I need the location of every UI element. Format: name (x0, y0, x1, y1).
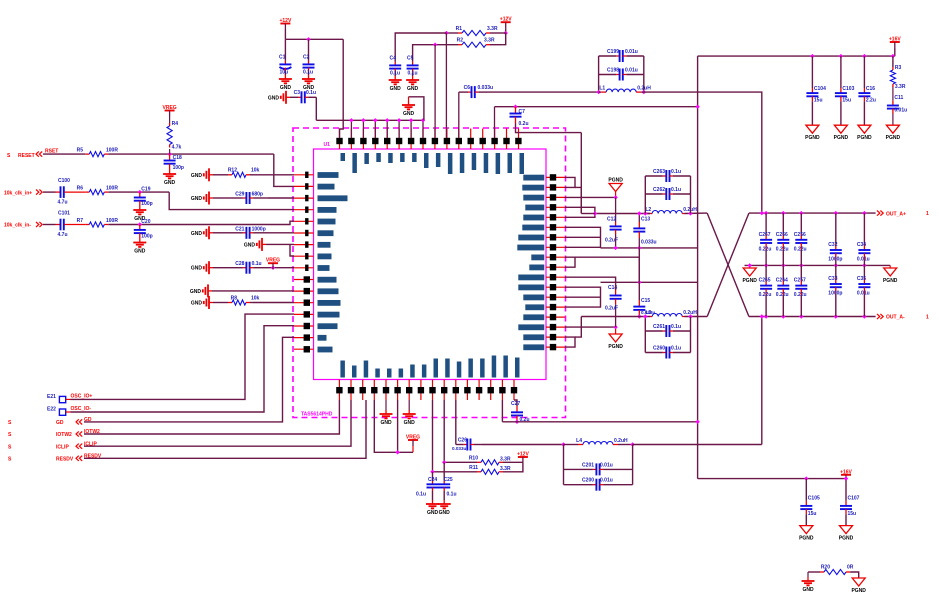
wire L4 out (633, 444, 762, 446)
svg-text:10k_clk_in-: 10k_clk_in- (4, 223, 31, 229)
pin stub top 14 (494, 129, 496, 150)
capacitor C16 (858, 86, 876, 103)
wire C16 top (863, 56, 865, 88)
wire pad5 gnd (385, 400, 387, 410)
wire (894, 48, 896, 56)
PGND ground mid left (742, 268, 757, 284)
wire pad11 riser (458, 92, 460, 138)
junction (409, 118, 413, 122)
wire L1 out (644, 92, 762, 213)
pin number pad left 8 (305, 253, 308, 259)
pin stub left 14 (294, 325, 314, 327)
wire C105 bot (805, 514, 807, 525)
svg-text:R1: R1 (456, 26, 463, 32)
pin name bar left 11 (318, 288, 339, 294)
junction (596, 90, 600, 94)
svg-text:S: S (8, 420, 12, 426)
ground (389, 76, 402, 92)
pin number pad left 5 (305, 218, 308, 224)
wire bus riser (374, 120, 376, 138)
wire row9 to C15 (565, 257, 639, 300)
wire C107 bot (845, 514, 847, 525)
pin stub right 8 (546, 246, 565, 248)
pin name bar left 1 (318, 172, 339, 178)
junction (844, 476, 848, 480)
pin number pad right 16 (550, 324, 556, 330)
pin name bar right 12 (518, 285, 544, 291)
resistor R1 (456, 26, 506, 36)
pin name bar top 16 (520, 153, 525, 174)
resistor R4 (167, 121, 182, 150)
inductor L4 (564, 438, 633, 445)
junction (433, 43, 437, 47)
wire out vertical (761, 317, 763, 445)
wire C13 down (638, 238, 640, 248)
svg-text:100p: 100p (141, 201, 152, 207)
junction (430, 470, 434, 474)
PGND ground (851, 578, 866, 594)
wire C103 top (840, 56, 842, 88)
wire L3 out (685, 316, 708, 318)
pin stub bottom 12 (466, 380, 468, 401)
pin number pad left 16 (304, 346, 310, 352)
pin stub left 7 (294, 244, 314, 246)
wire row11 (565, 277, 616, 290)
pin name bar top 10 (448, 153, 453, 174)
svg-text:C256: C256 (794, 232, 806, 238)
pin name bar left 2 (318, 184, 335, 190)
wire gnd pin8 (290, 244, 294, 256)
wire (43, 153, 85, 155)
pin stub top 12 (470, 129, 472, 150)
svg-text:0.01u: 0.01u (857, 291, 870, 297)
wire C33 bot (835, 294, 837, 317)
wire PGND mid bus (745, 264, 891, 266)
pin name bar left 5 (318, 219, 336, 225)
pin stub right 4 (546, 206, 565, 208)
pin name bar bottom 5 (387, 369, 392, 378)
pin stub left 13 (294, 313, 314, 315)
wire pad9 riser (434, 45, 436, 138)
wire R1 to C4 (395, 33, 446, 58)
pin stub left 11 (294, 290, 314, 292)
ground (191, 226, 213, 239)
wire C266 bot (782, 249, 784, 265)
wire gnd-R8 (213, 302, 228, 304)
pin stub left 4 (294, 209, 314, 211)
wire (505, 28, 507, 33)
pin stub bottom 2 (350, 380, 352, 401)
svg-text:L4: L4 (576, 438, 582, 444)
wire C14 down (615, 304, 617, 327)
svg-text:R10: R10 (469, 455, 478, 461)
pin stub bottom 8 (420, 380, 422, 401)
svg-text:C26: C26 (458, 438, 467, 444)
wire VREG net (374, 400, 413, 452)
svg-text:S: S (8, 432, 12, 438)
capacitor C27 (511, 401, 530, 423)
wire to bus (575, 187, 581, 213)
svg-text:GD: GD (56, 420, 64, 426)
ground (403, 410, 416, 426)
svg-text:E22: E22 (47, 407, 56, 413)
wire C104 bottom (811, 101, 813, 125)
pin number pad left 4 (305, 207, 308, 213)
pin number pad top 10 (444, 138, 450, 144)
pin stub left 15 (294, 337, 314, 339)
wire C257 bot (800, 295, 802, 316)
wire loop right C200 (632, 445, 634, 485)
pin number pad top 1 (336, 138, 342, 144)
wire row7 (565, 236, 601, 238)
pin stub right 12 (546, 286, 565, 288)
wire C13 ext (638, 248, 640, 282)
wire OUT+ rail (749, 212, 876, 214)
pin stub right 7 (546, 236, 565, 238)
pin name bar right 4 (525, 205, 544, 211)
svg-text:S: S (7, 153, 11, 159)
wire C32 bot (835, 260, 837, 266)
pin name bar bottom 11 (457, 362, 462, 378)
svg-text:PGND: PGND (834, 135, 849, 141)
pin stub right 14 (546, 306, 565, 308)
ground (163, 170, 176, 186)
pin stub left 10 (294, 279, 314, 281)
wire rows6-8 (565, 227, 601, 247)
pin name bar left 14 (318, 323, 338, 329)
pin number pad right 4 (550, 204, 556, 210)
pin number pad bottom 12 (464, 387, 470, 393)
pin stub right 15 (546, 316, 565, 318)
svg-text:C105: C105 (808, 496, 820, 502)
pin name bar bottom 14 (492, 356, 497, 378)
wire pgnd stem r (889, 265, 891, 268)
pin number pad top 11 (456, 138, 462, 144)
wire C12 down (615, 234, 617, 248)
pin stub top 13 (482, 129, 484, 150)
svg-text:C4: C4 (390, 56, 397, 62)
wire +16V rail (698, 55, 895, 57)
pin number pad right 10 (550, 264, 556, 270)
pin number pad bottom 1 (336, 387, 342, 393)
pin number pad top 6 (396, 138, 402, 144)
svg-text:0.01u: 0.01u (625, 68, 638, 74)
svg-text:PGND: PGND (839, 536, 854, 542)
capacitor C13 (633, 217, 656, 246)
pin stub right 3 (546, 196, 565, 198)
svg-text:3.3R: 3.3R (484, 38, 495, 44)
junction (504, 31, 508, 35)
pin name bar right 2 (522, 185, 544, 191)
junction (862, 54, 866, 58)
power +16V (889, 37, 901, 49)
capacitor C24 (427, 472, 439, 500)
wire RESDV net (84, 400, 366, 458)
pin stub bottom 4 (373, 380, 375, 401)
junction (167, 152, 171, 156)
pin stub right 18 (546, 346, 565, 348)
svg-text:RESDV: RESDV (56, 457, 74, 463)
svg-text:GND: GND (191, 196, 203, 202)
power +12V bottom (517, 452, 529, 464)
svg-text:R11: R11 (469, 465, 478, 471)
pin stub right 5 (546, 216, 565, 218)
ground (802, 577, 815, 593)
wire GD net (84, 337, 294, 422)
svg-text:GND: GND (427, 510, 439, 516)
svg-text:GND: GND (407, 86, 419, 92)
junction (513, 105, 517, 109)
PGND ground B (608, 334, 623, 350)
junction (891, 54, 895, 58)
pin name bar right 10 (529, 265, 544, 271)
svg-text:PGND: PGND (742, 278, 757, 284)
pin name bar bottom 10 (445, 359, 450, 378)
junction (862, 314, 866, 318)
svg-text:4.7u: 4.7u (58, 232, 68, 238)
junction (613, 195, 617, 199)
ground (244, 238, 266, 251)
wire rows17-18 (565, 337, 575, 347)
pin number pad top 16 (515, 138, 521, 144)
junction (138, 190, 142, 194)
pin number pad top 13 (480, 138, 486, 144)
junction (764, 211, 768, 215)
capacitor C262 (645, 187, 690, 200)
wire rows4-5 (565, 207, 595, 217)
pin number pad left 12 (304, 300, 310, 306)
pin name bar left 15 (318, 335, 327, 341)
pin stub top 7 (410, 129, 412, 150)
pin stub bottom 9 (432, 380, 434, 401)
svg-text:S: S (8, 444, 12, 450)
junction (593, 211, 597, 215)
op-amp U1 boundary (dashed) (293, 128, 566, 418)
pin name bar top 6 (400, 153, 405, 162)
power VREG (266, 258, 280, 270)
junction (748, 263, 752, 267)
wire C21 to pin (268, 232, 294, 234)
svg-text:0.1u: 0.1u (416, 492, 426, 498)
svg-text:100R: 100R (106, 148, 118, 154)
wire (409, 97, 424, 121)
PGND ground (834, 125, 849, 141)
svg-text:OUT_A-: OUT_A- (886, 315, 905, 321)
svg-text:3.3R: 3.3R (500, 456, 511, 462)
capacitor C257 (794, 278, 808, 298)
svg-text:680p: 680p (252, 192, 263, 198)
pin stub bottom 14 (490, 380, 492, 401)
svg-text:S: S (8, 457, 12, 463)
wire C104 top (811, 56, 813, 88)
capacitor C14 (605, 285, 622, 312)
resistor R12 (228, 168, 260, 178)
wire R3 top (892, 56, 894, 67)
pin name bar top 12 (472, 153, 477, 170)
svg-text:GND: GND (439, 510, 451, 516)
PGND ground (805, 125, 820, 141)
pin number pad right 11 (550, 274, 556, 280)
svg-text:PGND: PGND (608, 178, 623, 184)
pin stub top 9 (434, 129, 436, 150)
pin name bar left 4 (318, 207, 337, 213)
svg-text:0.01u: 0.01u (894, 107, 907, 113)
pin name bar bottom 4 (375, 369, 380, 378)
svg-text:3.3R: 3.3R (487, 26, 498, 32)
svg-text:GND: GND (191, 173, 203, 179)
capacitor C267 (759, 232, 773, 252)
svg-text:C262: C262 (653, 187, 665, 193)
wire gnd-C29 (213, 197, 228, 199)
capacitor C261 (645, 324, 690, 337)
inductor L2 (645, 207, 697, 214)
junction (688, 314, 692, 318)
junction (695, 420, 699, 424)
pin stub top 2 (350, 129, 352, 150)
pin name bar bottom 13 (480, 359, 485, 378)
svg-text:0.033u: 0.033u (478, 85, 494, 91)
junction (421, 118, 425, 122)
pin name bar top 8 (424, 153, 429, 168)
PGND ground (839, 526, 854, 542)
pin stub bottom 13 (478, 380, 480, 401)
pin name bar top 3 (364, 153, 369, 164)
pin stub left 12 (294, 302, 314, 304)
port OUT_A- (877, 314, 880, 319)
svg-text:R7: R7 (77, 218, 84, 224)
svg-text:15u: 15u (814, 97, 823, 103)
capacitor C265 (759, 278, 773, 298)
wire VREG-R4 (169, 117, 171, 124)
wire rows12-14 (565, 287, 601, 307)
svg-text:C16: C16 (866, 86, 875, 92)
svg-text:0.033u: 0.033u (641, 240, 657, 246)
PGND ground mid right (883, 268, 898, 284)
junction (138, 222, 142, 226)
svg-text:3.3R: 3.3R (895, 84, 906, 90)
svg-text:PGND: PGND (886, 135, 901, 141)
pin name bar right 11 (518, 275, 544, 281)
wire gnd-C28 (213, 267, 228, 269)
svg-text:C104: C104 (814, 86, 826, 92)
pin number pad top 7 (408, 138, 414, 144)
svg-text:C201: C201 (582, 462, 594, 468)
svg-text:15u: 15u (808, 511, 817, 517)
ground (133, 239, 146, 255)
capacitor C101 (56, 210, 86, 238)
svg-text:C15: C15 (641, 298, 650, 304)
junction (630, 442, 634, 446)
pin number pad left 13 (304, 311, 310, 317)
pin name bar right 8 (517, 245, 544, 251)
svg-text:0.22u: 0.22u (794, 246, 807, 252)
svg-text:100R: 100R (106, 218, 118, 224)
pin stub bottom 3 (362, 380, 364, 401)
pin name bar top 5 (388, 153, 393, 163)
pin name bar left 8 (318, 254, 332, 260)
pin name bar top 11 (460, 153, 465, 173)
svg-text:0.1u: 0.1u (390, 71, 400, 77)
capacitor C21 (228, 226, 268, 239)
wire (284, 30, 286, 40)
capacitor C6 (459, 85, 493, 98)
pin number pad right 8 (550, 244, 556, 250)
svg-text:2.2u: 2.2u (866, 97, 876, 103)
wire (315, 97, 317, 120)
pin name bar bottom 6 (399, 369, 404, 378)
pin number pad top 4 (372, 138, 378, 144)
pin name bar bottom 3 (364, 361, 369, 378)
ground (279, 75, 292, 91)
wire pad10 down (443, 400, 445, 462)
svg-text:L2: L2 (645, 207, 651, 213)
ground (191, 168, 213, 181)
pin name bar right 6 (522, 225, 544, 231)
wire R8 to pin (253, 302, 294, 304)
svg-text:10k_clk_in+: 10k_clk_in+ (4, 190, 32, 196)
svg-text:C260: C260 (653, 346, 665, 352)
capacitor C34 (857, 242, 871, 262)
pin number pad bottom 4 (371, 387, 377, 393)
wire C266 top (782, 213, 784, 233)
svg-text:C34: C34 (857, 242, 866, 248)
junction (760, 314, 764, 318)
wire bus riser (410, 120, 412, 138)
svg-text:C5: C5 (407, 56, 414, 62)
pin number pad right 15 (550, 314, 556, 320)
pin name bar bottom 12 (468, 359, 473, 378)
svg-text:C3: C3 (294, 90, 301, 96)
inductor L1 (599, 86, 652, 93)
junction (695, 105, 699, 109)
junction (271, 266, 275, 270)
junction (373, 118, 377, 122)
svg-text:0.1u: 0.1u (303, 70, 313, 76)
svg-text:C6: C6 (464, 85, 471, 91)
wire C32 top (835, 213, 837, 244)
svg-text:C265: C265 (759, 278, 771, 284)
inductor L3 (645, 310, 697, 317)
capacitor C20 (134, 219, 153, 240)
svg-text:1: 1 (926, 315, 929, 321)
svg-text:RESET: RESET (18, 153, 35, 159)
port OUT_A+ (877, 211, 880, 216)
op-amp U1 body (314, 149, 547, 380)
pin number pad left 15 (304, 334, 310, 340)
junction (862, 263, 866, 267)
ground (426, 500, 439, 516)
capacitor C4 (389, 56, 401, 77)
pin name bar top 1 (341, 153, 346, 161)
pin stub bottom 10 (443, 380, 445, 401)
capacitor C19 (134, 187, 153, 208)
svg-text:0.2uH: 0.2uH (637, 86, 651, 92)
ground (302, 75, 315, 91)
svg-text:R8: R8 (231, 295, 238, 301)
pin stub bottom 15 (501, 380, 503, 401)
svg-text:C264: C264 (776, 278, 788, 284)
pin number pad bottom 2 (348, 387, 354, 393)
svg-text:U1: U1 (324, 142, 331, 148)
wire row13 (565, 296, 601, 298)
capacitor C200 (564, 478, 633, 491)
resistor R8 (228, 295, 260, 305)
capacitor C263 (645, 169, 690, 182)
svg-text:C12: C12 (607, 217, 616, 223)
wire R10 pre (444, 461, 477, 463)
junction (643, 211, 647, 215)
power +12V (279, 18, 291, 30)
